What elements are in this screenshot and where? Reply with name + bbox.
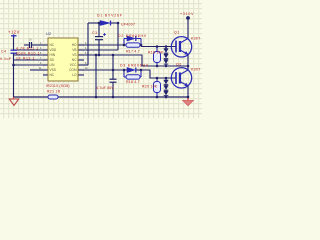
svg-text:U2: U2 [46,31,52,36]
svg-text:K30T60: K30T60 [191,68,200,72]
svg-text:C3: C3 [92,31,98,35]
svg-text:C4: C4 [1,50,7,54]
svg-text:UF4007: UF4007 [121,23,135,27]
svg-text:NC: NC [50,73,55,77]
svg-text:4.7uF 50V: 4.7uF 50V [96,86,114,90]
svg-text:HIN: HIN [50,53,56,57]
svg-text:LO: LO [72,73,77,77]
svg-text:VCC: VCC [70,63,77,67]
svg-text:R21 1R: R21 1R [47,89,61,93]
svg-text:10: 10 [29,37,33,41]
svg-text:+310V: +310V [180,12,194,16]
svg-text:IR2110 (SO8): IR2110 (SO8) [46,84,70,88]
svg-text:4.7K R11 1: 4.7K R11 1 [16,47,39,51]
svg-text:0.1uF: 0.1uF [0,57,12,61]
svg-text:NC: NC [72,58,77,62]
svg-text:HO: HO [72,43,77,47]
svg-text:+12V: +12V [8,30,20,35]
svg-text:D3 ER606HV: D3 ER606HV [120,64,149,68]
svg-text:VSS: VSS [50,68,56,72]
svg-text:VDD: VDD [50,48,57,52]
svg-text:SD: SD [50,58,55,62]
svg-text:VS: VS [72,53,76,57]
svg-text:Q2: Q2 [176,63,182,67]
svg-text:D2 ER606HV: D2 ER606HV [118,34,147,38]
svg-text:R18 4.7: R18 4.7 [126,80,140,84]
svg-text:VB: VB [72,48,76,52]
svg-text:R20 10K: R20 10K [142,85,158,89]
svg-text:NC: NC [50,43,55,47]
svg-text:LIN: LIN [50,63,56,67]
svg-text:D1 BYV26F: D1 BYV26F [97,13,123,17]
svg-text:K30T60: K30T60 [191,37,200,41]
svg-text:Q1: Q1 [174,31,180,35]
svg-text:R17 4.7: R17 4.7 [126,50,140,54]
svg-text:R19 10K: R19 10K [148,51,164,55]
svg-text:1K R12 1: 1K R12 1 [16,57,35,61]
svg-text:COM: COM [69,68,77,72]
svg-text:300K R10 1: 300K R10 1 [16,52,40,56]
